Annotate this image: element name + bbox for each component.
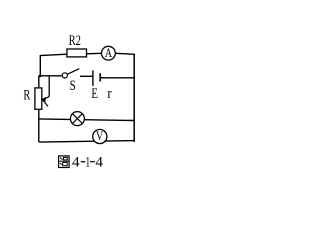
lamp — [70, 112, 84, 126]
wire bottom row — [39, 141, 134, 143]
wire middle row to battery — [80, 75, 93, 77]
wire battery to right rail — [100, 77, 134, 79]
svg-text:4: 4 — [95, 154, 103, 170]
svg-text:E: E — [91, 86, 98, 102]
resistor R2 — [67, 49, 87, 57]
svg-text:A: A — [105, 45, 113, 60]
rheostat slider arm lower — [43, 100, 48, 107]
svg-text:r: r — [107, 86, 111, 102]
svg-text:R2: R2 — [69, 33, 81, 49]
rheostat slider arrowhead — [42, 97, 47, 102]
ammeter A — [102, 45, 116, 60]
svg-text:V: V — [96, 128, 104, 143]
svg-text:R: R — [23, 88, 30, 104]
wire left vertical top — [39, 55, 41, 76]
wire left rail upper segment — [38, 76, 40, 88]
rheostat slider arm upper — [43, 97, 50, 100]
rheostat R box — [35, 88, 42, 109]
wire lamp row — [39, 119, 134, 121]
wire left rail lower segment — [38, 109, 40, 142]
switch S pivot — [62, 73, 67, 78]
svg-text:1: 1 — [85, 154, 90, 170]
caption glyph tu (figure) — [59, 156, 70, 168]
junction node — [39, 74, 42, 77]
svg-text:4: 4 — [72, 154, 80, 170]
battery short plate — [99, 73, 101, 81]
caption 4-1-4 — [72, 154, 104, 170]
wire top row — [40, 53, 134, 55]
svg-text:S: S — [70, 78, 76, 94]
voltmeter V — [93, 128, 107, 144]
wire middle row left — [40, 75, 62, 77]
rheostat slider wire — [48, 76, 50, 97]
wire right rail — [133, 54, 135, 142]
battery E long plate — [92, 70, 94, 86]
switch S blade — [67, 69, 79, 75]
